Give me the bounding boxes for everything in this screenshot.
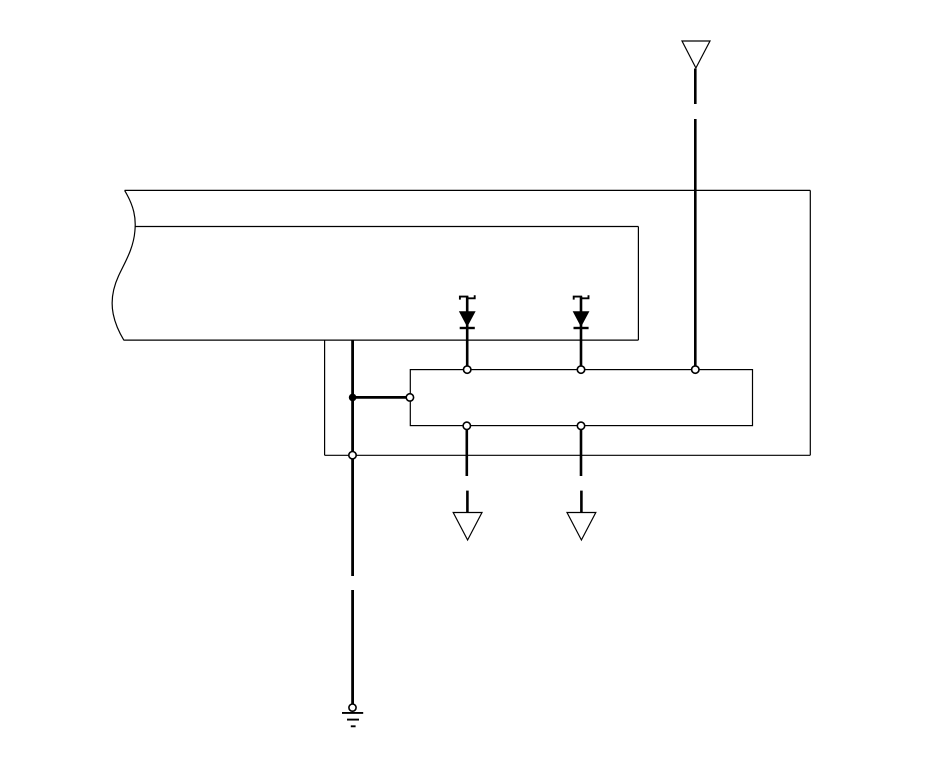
wire: bus net vertical (lower segment to ground) [351,590,354,704]
pin circle: connector top pin 2 [577,366,584,373]
diode D2 cathode bar [574,327,589,329]
pin circle: connector bottom pin 1 [463,422,470,429]
module outline: right edge [809,190,811,455]
power symbol (open down-triangle, top right) [682,41,710,68]
wire: power net down to connector pin 3 (crosses module top edge) [694,119,697,369]
diode D1 triangle (filled, cathode down) [460,312,475,326]
wire: bottom pin 1 drop (upper segment) [465,426,468,476]
module outline: top edge [125,189,811,191]
ground bar 2 [347,719,359,721]
diode D1 top bar (zener hooks) [460,295,475,299]
diode D2 triangle (filled, cathode down) [574,312,589,326]
diode D1 cathode bar [460,327,475,329]
off-page arrow 1 (open down-triangle) [453,513,482,541]
pin circle: connector top pin 3 [692,366,699,373]
off-page arrow 2 (open down-triangle) [567,513,596,541]
ground bar 1 [342,712,363,714]
pin circle: connector top pin 1 [464,366,471,373]
ground bar 3 [351,725,356,727]
diode D1 wire (anode stub through to pin) [466,297,469,369]
inner box: top edge [135,226,639,228]
wire: junction to connector left pin [353,396,409,399]
wire: bottom pin 2 drop (lower stub to arrow) [580,491,583,513]
connector box U1 [410,370,752,426]
wire: bottom pin 2 drop (upper segment) [580,426,583,476]
inner box: bottom edge [124,339,638,341]
inner box: right edge [637,227,639,341]
ground terminal circle [349,704,356,711]
pin circle: bus node on module bottom edge [349,452,356,459]
pin circle: connector bottom pin 2 [577,422,584,429]
diode D2 wire (anode stub through to pin) [580,297,583,369]
wire: power symbol stub (upper segment) [694,69,697,105]
diode D2 top bar (zener hooks) [574,295,589,299]
junction dot (node A) [349,394,357,402]
module outline: torn-edge squiggle (left break) [112,190,135,340]
wire: bus net vertical (upper segment, node to break) [351,340,354,576]
pin circle: connector left pin [406,394,413,401]
module outline: left step vertical [324,340,326,455]
wire: bottom pin 1 drop (lower stub to arrow) [466,491,469,513]
module outline: bottom edge [325,454,811,456]
